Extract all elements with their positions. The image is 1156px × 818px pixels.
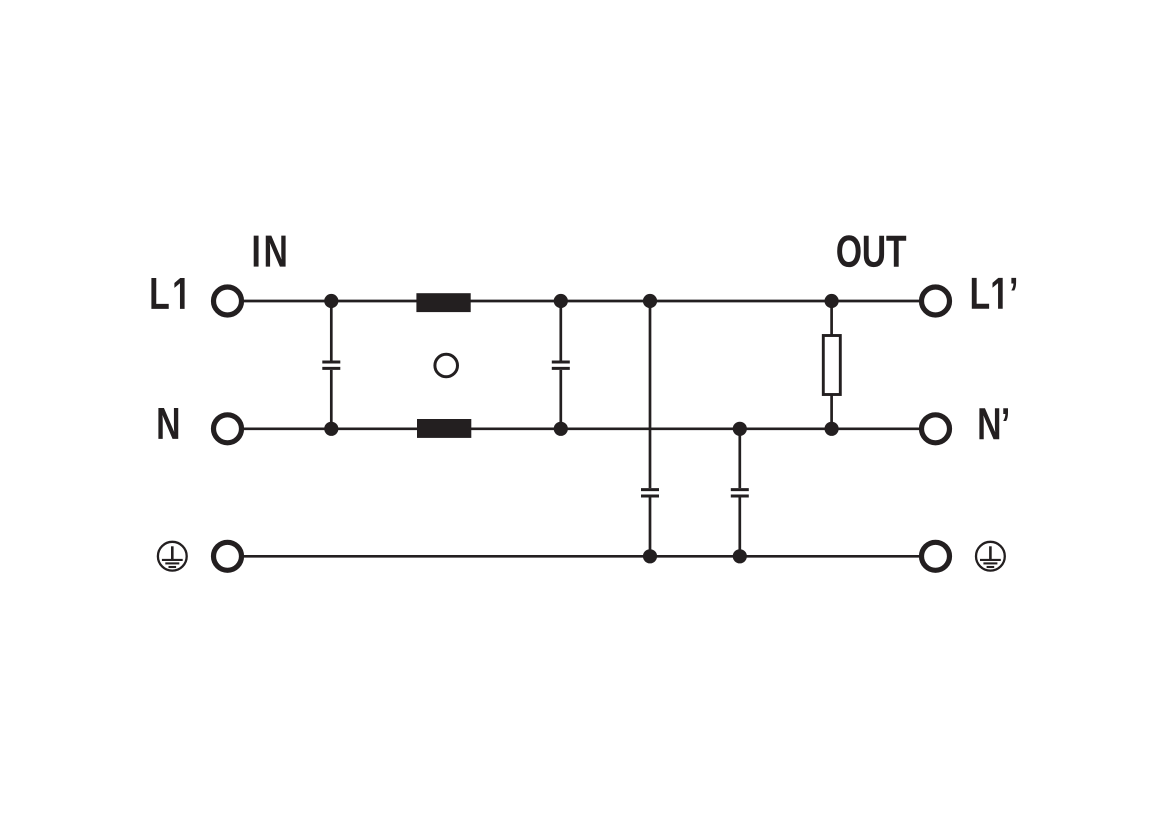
capacitor X2 xyxy=(552,301,570,429)
label IN xyxy=(254,236,286,267)
wire N line xyxy=(244,427,920,430)
capacitor Y2 xyxy=(731,429,749,557)
label N xyxy=(158,408,178,439)
junction L1-X2 xyxy=(554,294,568,308)
label OUT xyxy=(837,235,906,267)
wire PE line xyxy=(244,555,920,558)
terminal L1' xyxy=(922,287,950,315)
junction PE-Y2 xyxy=(733,549,747,563)
junction N-Y2 xyxy=(733,422,747,436)
label L1 xyxy=(151,278,184,309)
choke core circle xyxy=(435,354,458,377)
junction N-X1 xyxy=(324,422,338,436)
junction PE-Y1 xyxy=(643,549,657,563)
terminal PE right xyxy=(922,542,950,570)
resistor R xyxy=(823,301,840,429)
terminal N' xyxy=(922,415,950,443)
capacitor Y1 xyxy=(641,301,659,556)
terminal PE left xyxy=(214,542,242,570)
junction N-X2 xyxy=(554,422,568,436)
label N' xyxy=(979,408,1008,439)
label L1' xyxy=(972,278,1016,309)
junction L1-Y1 xyxy=(643,294,657,308)
wire L1 line xyxy=(244,300,920,303)
junction L1-R xyxy=(825,294,839,308)
terminal L1 xyxy=(214,287,242,315)
choke winding bottom xyxy=(417,419,471,438)
protective earth symbol left xyxy=(158,542,187,571)
protective earth symbol right xyxy=(976,542,1005,571)
junction L1-X1 xyxy=(324,294,338,308)
capacitor X1 xyxy=(322,301,340,429)
junction N-R xyxy=(825,422,839,436)
choke winding top xyxy=(416,293,470,312)
terminal N xyxy=(214,415,242,443)
